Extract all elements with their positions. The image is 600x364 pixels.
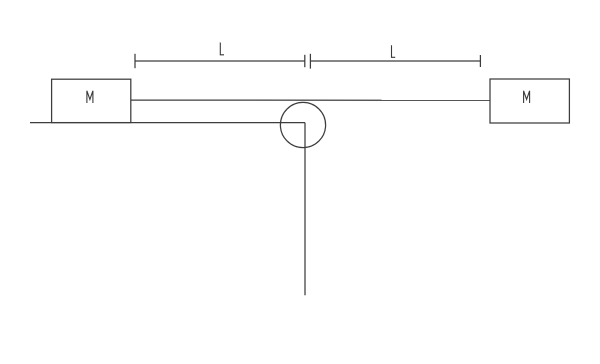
right dimension tick right — [479, 55, 481, 67]
left dimension tick right — [304, 55, 306, 67]
label M right mass — [524, 91, 530, 103]
vertical post line — [304, 123, 306, 296]
label L left dimension — [220, 43, 224, 55]
ground line — [30, 122, 305, 124]
right dimension tick left — [309, 54, 311, 69]
label M left mass — [87, 91, 93, 103]
right mass box M — [490, 79, 569, 123]
lever beam line — [131, 99, 490, 101]
right dimension line — [310, 60, 480, 62]
left dimension tick left — [134, 54, 136, 68]
label L right dimension — [392, 45, 396, 57]
pivot circle — [280, 102, 325, 147]
left mass box M — [52, 79, 131, 122]
left dimension line — [135, 60, 305, 62]
